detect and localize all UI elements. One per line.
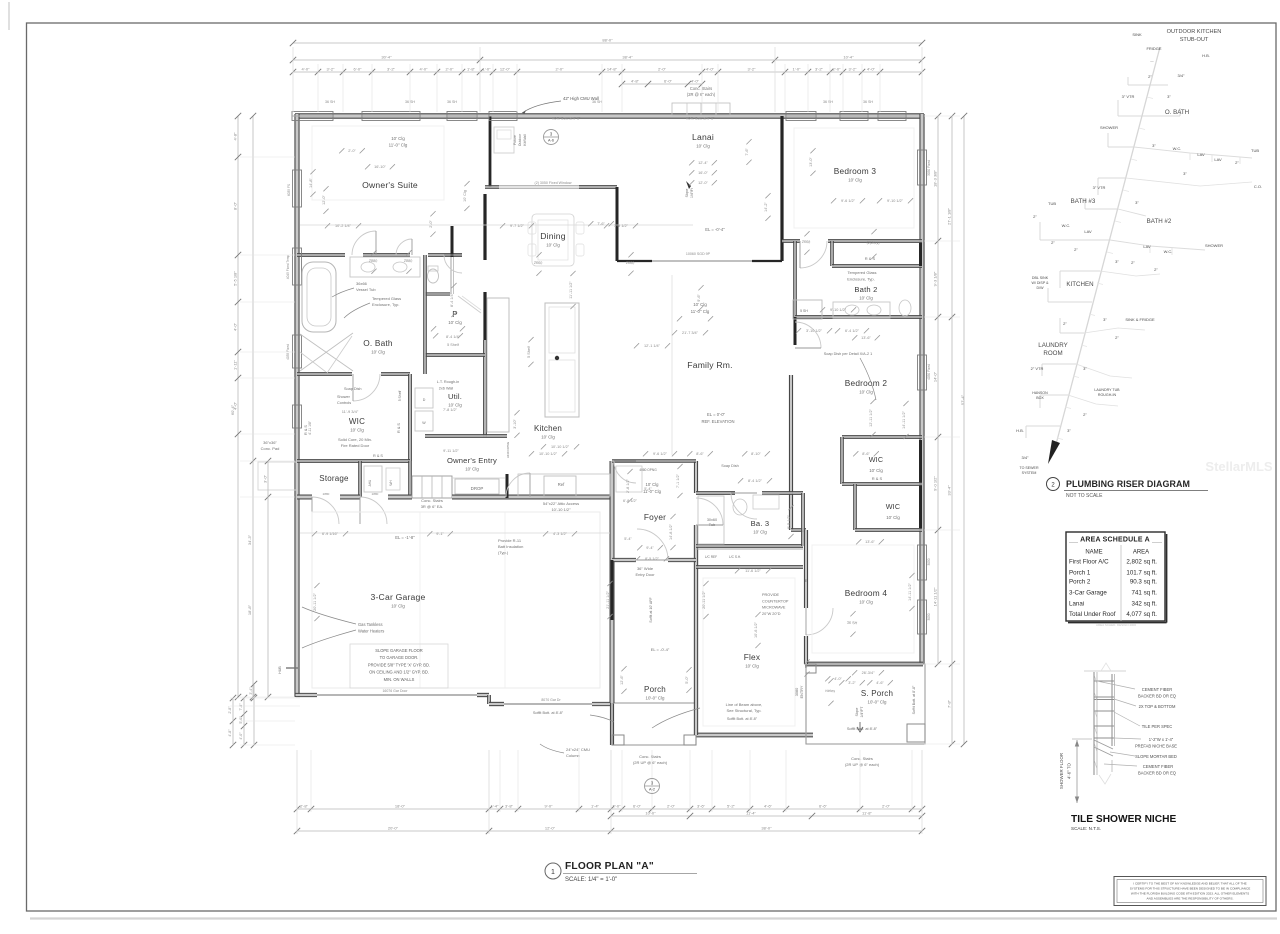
svg-text:Soffit Bott. at 8'-8": Soffit Bott. at 8'-8" [847,727,878,731]
svg-text:10' Clg: 10' Clg [371,350,385,355]
svg-text:9'-7 1/2": 9'-7 1/2" [510,224,525,228]
svg-text:14'-0": 14'-0" [933,371,938,382]
svg-text:Enclosure, Typ.: Enclosure, Typ. [372,302,400,307]
svg-text:Conc. Pad: Conc. Pad [261,446,280,451]
svg-text:1'-0": 1'-0" [483,67,492,72]
exterior walls [295,114,924,117]
svg-text:AREA: AREA [1133,550,1149,556]
svg-text:10' Clg: 10' Clg [541,435,555,440]
svg-text:2X TOP & BOTTOM: 2X TOP & BOTTOM [1139,704,1176,709]
svg-text:3-Car Garage: 3-Car Garage [1069,590,1107,597]
svg-text:4'-0": 4'-0" [302,67,311,72]
svg-text:Total Under Roof: Total Under Roof [1069,611,1116,618]
pantry bottom wall [425,354,485,356]
svg-text:SLOPE MORTAR BED: SLOPE MORTAR BED [1135,754,1177,759]
svg-text:3": 3" [1115,259,1119,264]
svg-text:ROUGH-IN: ROUGH-IN [1098,393,1117,397]
svg-text:SYSTEMS FOR THIS STRUCTURE HAV: SYSTEMS FOR THIS STRUCTURE HAVE BEEN DES… [1130,887,1251,891]
svg-text:10' Clg: 10' Clg [886,515,900,520]
svg-text:Water Heaters: Water Heaters [358,629,384,634]
svg-text:8'-4 1/2": 8'-4 1/2" [748,479,763,483]
svg-text:11'-11 1/2": 11'-11 1/2" [569,281,573,299]
plumbing riser main line [1054,47,1160,452]
svg-text:3'-6": 3'-6" [697,804,706,809]
svg-text:8'-6": 8'-6" [862,452,870,456]
svg-text:741 sq ft.: 741 sq ft. [1132,590,1158,597]
svg-text:33'-4": 33'-4" [947,485,952,496]
svg-text:O. BATH: O. BATH [1165,109,1189,116]
svg-text:7'-8 1/2": 7'-8 1/2" [443,408,458,412]
left extension lines [240,156,295,158]
svg-text:13'-6": 13'-6" [865,540,875,544]
svg-text:21'-7 3/4": 21'-7 3/4" [682,331,699,335]
svg-text:4'-3 1/2": 4'-3 1/2" [553,532,568,536]
svg-text:21'-11 1/2": 21'-11 1/2" [606,590,610,608]
svg-text:2'-8": 2'-8" [228,706,232,714]
svg-text:14'-8 1/2": 14'-8 1/2" [669,523,673,540]
svg-text:36 SH: 36 SH [863,100,873,104]
svg-text:WIC: WIC [886,502,901,511]
svg-text:Slope: Slope [685,189,689,198]
svg-text:9'-1": 9'-1" [436,532,444,536]
svg-text:5 Shelf: 5 Shelf [398,391,402,402]
svg-text:SHOWER: SHOWER [1100,125,1118,130]
svg-text:4'-0": 4'-0" [233,322,238,331]
svg-text:Solid Core, 20 Min.: Solid Core, 20 Min. [338,437,372,442]
svg-text:HDR. Bott. at 9'-8": HDR. Bott. at 9'-8" [552,117,581,121]
svg-text:5 Shelf: 5 Shelf [527,345,531,358]
svg-text:LAV: LAV [1197,152,1205,157]
svg-text:2" VTR: 2" VTR [1031,366,1044,371]
svg-text:60'-4": 60'-4" [230,404,235,415]
svg-text:Soap Dish: Soap Dish [344,387,362,391]
garage stairs landing [412,476,452,498]
svg-text:16'-0": 16'-0" [698,171,708,175]
svg-text:P: P [452,310,458,319]
top extension lines [292,47,294,112]
s.porch outline [806,664,925,744]
svg-text:18'-0": 18'-0" [395,804,406,809]
svg-text:3'-2": 3'-2" [815,67,824,72]
svg-text:AHU: AHU [368,479,372,486]
svg-text:L.T. Rough-in: L.T. Rough-in [437,380,460,384]
svg-text:D/W: D/W [1037,286,1045,290]
svg-text:9'-6": 9'-6" [697,294,701,302]
svg-text:54"x22" Attic Access: 54"x22" Attic Access [543,501,579,506]
svg-text:5'-0": 5'-0" [685,676,689,684]
svg-text:SINK: SINK [1132,32,1142,37]
svg-text:3050: 3050 [927,558,931,565]
svg-text:38'-4": 38'-4" [622,55,633,60]
svg-text:A-2: A-2 [649,788,655,792]
svg-text:(Typ.): (Typ.) [498,550,509,555]
svg-text:BACKER BD OR EQ: BACKER BD OR EQ [1138,771,1176,776]
svg-text:H.B.: H.B. [1202,53,1210,58]
svg-text:AREA SCHEDULE A: AREA SCHEDULE A [1080,537,1150,544]
svg-text:7'-8": 7'-8" [239,703,243,711]
svg-text:2": 2" [1074,247,1078,252]
svg-text:L/C REF: L/C REF [705,555,717,559]
svg-text:2": 2" [1154,267,1158,272]
riser branches [1128,84,1150,86]
doors [352,231,376,255]
svg-text:3'-2": 3'-2" [848,681,856,685]
svg-text:14'-8": 14'-8" [607,67,618,72]
svg-text:KITCHEN: KITCHEN [1066,281,1093,288]
svg-text:NOT TO SCALE: NOT TO SCALE [1066,493,1103,499]
svg-text:11'-0" Clg: 11'-0" Clg [389,143,408,148]
svg-text:2'-0": 2'-0" [658,67,667,72]
svg-text:4'-11 1/8": 4'-11 1/8" [308,420,312,435]
svg-text:36 SH: 36 SH [592,100,602,104]
svg-text:varies: varies [825,689,835,694]
svg-text:SHOWER FLOOR: SHOWER FLOOR [1059,753,1064,789]
svg-text:36 SH: 36 SH [447,100,457,104]
garage ceiling dashes [312,512,600,688]
svg-text:16'-10": 16'-10" [374,165,386,169]
svg-text:4'-6": 4'-6" [764,804,773,809]
svg-text:6'-0": 6'-0" [354,67,363,72]
svg-text:2'-8 1/2": 2'-8 1/2" [626,478,630,493]
svg-text:Soffit at 10' AFF: Soffit at 10' AFF [649,597,653,623]
wc right wall [450,257,452,294]
svg-text:3" VTR: 3" VTR [1093,185,1106,190]
svg-text:5'-4": 5'-4" [624,537,632,541]
svg-text:11'-4": 11'-4" [746,811,756,816]
svg-text:2880: 2880 [369,259,378,263]
svg-text:(2R UP @ 6" each): (2R UP @ 6" each) [845,762,880,767]
svg-text:Soffit Bott. at 8'-8": Soffit Bott. at 8'-8" [912,685,916,714]
svg-text:12'-1 1/4": 12'-1 1/4" [644,344,661,348]
svg-text:10' Clg: 10' Clg [350,428,364,433]
svg-text:Tempered Glass: Tempered Glass [372,296,401,301]
svg-text:CEMENT FIBER: CEMENT FIBER [1143,764,1173,769]
svg-text:1'-4": 1'-4" [591,804,600,809]
svg-text:A-6: A-6 [548,139,554,143]
svg-text:4'-0": 4'-0" [239,732,243,740]
svg-text:4'-6" TO: 4'-6" TO [1067,762,1072,778]
svg-text:5'-4": 5'-4" [644,487,652,491]
svg-text:9'-4": 9'-4" [646,546,654,550]
svg-text:9'-6 1/2": 9'-6 1/2" [841,199,856,203]
svg-text:9'-3 1/8": 9'-3 1/8" [933,271,938,286]
svg-text:14'-11 1/2": 14'-11 1/2" [933,587,938,606]
svg-text:36"x36": 36"x36" [263,440,277,445]
svg-text:L/C S.H.: L/C S.H. [729,555,741,559]
riser arrow to sewer [1048,440,1060,464]
svg-text:342 sq ft.: 342 sq ft. [1132,601,1158,608]
svg-text:SYSTEM: SYSTEM [1022,471,1037,475]
svg-text:2": 2" [1051,240,1055,245]
svg-text:11'-6 1/2": 11'-6 1/2" [745,569,761,573]
storage doors from garage [312,497,339,524]
svg-text:W: W [422,421,426,425]
svg-text:Soffit Bott. at 8'-8": Soffit Bott. at 8'-8" [533,711,564,715]
svg-text:Column: Column [566,753,580,758]
svg-text:D: D [423,398,426,402]
svg-text:12'-6": 12'-6" [620,675,624,685]
svg-text:CEMENT FIBER: CEMENT FIBER [1142,687,1172,692]
svg-text:LAUNDRY TUB: LAUNDRY TUB [1094,388,1120,392]
svg-text:5 SH: 5 SH [800,309,808,313]
svg-text:1: 1 [551,869,555,876]
svg-text:10' Clg: 10' Clg [745,664,759,669]
windows top wall [292,112,333,121]
svg-text:ENTRY: ENTRY [800,685,804,698]
svg-text:Storage: Storage [319,474,349,483]
svg-text:6'-0": 6'-0" [664,79,673,84]
svg-text:EL = -0'-4": EL = -0'-4" [705,227,725,232]
svg-text:(2)2668: (2)2668 [866,241,879,246]
svg-text:2": 2" [1148,74,1152,79]
svg-text:36" Wide: 36" Wide [637,566,654,571]
svg-text:Conc. Stairs: Conc. Stairs [690,86,712,91]
svg-text:BACKER BD OR EQ: BACKER BD OR EQ [1138,694,1176,699]
svg-text:3" VTR: 3" VTR [1122,94,1135,99]
svg-text:Batt Insulation: Batt Insulation [498,544,523,549]
owner bath shower [300,333,353,371]
svg-text:27'-1 1/8": 27'-1 1/8" [947,207,952,224]
svg-text:Shower: Shower [337,395,351,399]
svg-text:PREFAB NICHE BASE: PREFAB NICHE BASE [1135,744,1177,749]
svg-text:Lanai: Lanai [692,132,714,142]
svg-text:2x6 Wall: 2x6 Wall [439,387,454,391]
svg-text:1'-2"W x 1'-4": 1'-2"W x 1'-4" [1149,737,1174,742]
svg-text:10' Clg: 10' Clg [391,604,405,609]
svg-text:14'-8": 14'-8" [309,178,313,188]
svg-text:2880: 2880 [372,492,379,496]
svg-text:10' Clg: 10' Clg [859,600,873,605]
svg-text:Owner's Suite: Owner's Suite [362,180,418,190]
svg-text:1/4"/Ft: 1/4"/Ft [690,188,694,198]
svg-text:AND ASSEMBLIES ARE THE RESPONS: AND ASSEMBLIES ARE THE RESPONSIBILITY OF… [1147,897,1234,901]
svg-text:W/ DISP &: W/ DISP & [1031,281,1049,285]
svg-text:Flex: Flex [744,652,761,662]
svg-text:SLOPE GARAGE FLOOR: SLOPE GARAGE FLOOR [375,648,423,653]
svg-text:PLUMBING RISER DIAGRAM: PLUMBING RISER DIAGRAM [1066,479,1190,489]
svg-text:2'-0": 2'-0" [833,67,842,72]
svg-text:Conc. Stairs: Conc. Stairs [639,754,661,759]
lanai outdoor kitchen [494,127,514,153]
svg-text:R & S: R & S [397,423,401,433]
svg-text:10' Clg: 10' Clg [869,468,883,473]
svg-text:10' Clg: 10' Clg [848,178,862,183]
svg-text:10'-2 1/4": 10'-2 1/4" [335,224,352,228]
svg-text:(2) 3050 Fixed Window: (2) 3050 Fixed Window [535,181,572,185]
svg-text:Bedroom 3: Bedroom 3 [834,166,877,176]
svg-text:101.7 sq ft.: 101.7 sq ft. [1126,570,1157,577]
area schedule table [1066,532,1165,621]
ba3 fixtures [698,496,724,544]
svg-text:Conc. Stairs: Conc. Stairs [851,756,873,761]
svg-text:8'-4 1/4": 8'-4 1/4" [450,292,454,307]
svg-text:10' Clg: 10' Clg [859,390,873,395]
svg-text:10' Clg: 10' Clg [448,320,462,325]
drop zone bench [455,479,499,494]
svg-text:NAME: NAME [1085,550,1102,556]
family rm break line [671,275,673,455]
niche vertical dim [1076,740,1078,803]
svg-text:S. Porch: S. Porch [861,689,893,698]
svg-text:3": 3" [1083,366,1087,371]
svg-text:Porch: Porch [644,685,666,694]
svg-text:ROOM: ROOM [1043,350,1062,357]
wc room wall + toilet [425,293,450,295]
svg-text:12'-0": 12'-0" [545,826,556,831]
svg-text:Bedroom 2: Bedroom 2 [845,378,888,388]
svg-text:HUB: HUB [278,666,282,674]
floor plan title [545,863,561,879]
svg-text:3": 3" [1067,428,1071,433]
svg-text:2'-0": 2'-0" [667,804,676,809]
svg-text:3'-2": 3'-2" [849,67,858,72]
svg-text:COUNTERTOP: COUNTERTOP [762,599,789,603]
niche hatch [1095,676,1098,684]
svg-text:3'-2": 3'-2" [748,67,757,72]
svg-text:8'-0": 8'-0" [233,201,238,210]
svg-text:E: E [805,578,808,583]
svg-text:12'-0": 12'-0" [322,195,326,205]
svg-text:3050 Fixed: 3050 Fixed [927,160,931,176]
svg-text:TILE SHOWER NICHE: TILE SHOWER NICHE [1071,814,1176,825]
svg-text:WIC: WIC [869,455,884,464]
svg-text:Slope: Slope [855,708,859,717]
svg-text:8'-6": 8'-6" [696,452,704,456]
svg-text:1'-11": 1'-11" [233,359,238,369]
svg-text:20'-0": 20'-0" [388,826,399,831]
svg-text:2'-0": 2'-0" [882,804,891,809]
porch outline [612,703,696,745]
svg-text:38'-0": 38'-0" [761,826,772,831]
svg-text:ON CEILING AND 1/2" GYP. BD.: ON CEILING AND 1/2" GYP. BD. [369,670,429,675]
svg-text:5'-0": 5'-0" [239,716,243,724]
svg-text:EL = 0'-0": EL = 0'-0" [707,412,726,417]
svg-text:(2R UP @ 6" each): (2R UP @ 6" each) [633,760,668,765]
svg-text:14'-11 1/2": 14'-11 1/2" [902,410,906,428]
svg-text:2'-0": 2'-0" [446,67,455,72]
svg-text:6035 FS: 6035 FS [287,184,291,196]
owner bath vessel tub [302,262,336,332]
svg-text:10' Clg: 10' Clg [391,136,405,141]
bottom extension lines [296,750,298,812]
svg-text:C.O.: C.O. [1254,184,1262,189]
storage ahu [364,466,382,492]
tray ceilings [312,126,444,200]
svg-text:Outdoor: Outdoor [518,133,522,146]
niche leaders [1097,681,1135,689]
svg-text:3'-0": 3'-0" [263,474,268,483]
svg-text:30x60: 30x60 [707,518,717,522]
svg-text:34'-3": 34'-3" [247,534,252,545]
svg-text:36 SH: 36 SH [823,100,833,104]
svg-text:STUB-OUT: STUB-OUT [1180,37,1209,43]
svg-text:10' Clg: 10' Clg [859,296,873,301]
svg-text:R & S: R & S [872,476,883,481]
svg-text:Tub: Tub [709,523,715,527]
svg-text:90.3 sq ft.: 90.3 sq ft. [1130,579,1157,586]
svg-text:7'-6": 7'-6" [745,148,749,156]
svg-text:LAV: LAV [1143,244,1151,249]
svg-text:4'-6": 4'-6" [876,681,884,685]
svg-text:Porch 1: Porch 1 [1069,570,1091,577]
svg-text:10'-0": 10'-0" [645,811,656,816]
svg-text:(2R @ 6" each): (2R @ 6" each) [687,92,716,97]
svg-text:6'-9 1/16": 6'-9 1/16" [322,532,339,536]
svg-text:Util.: Util. [448,392,462,401]
svg-text:88'-0": 88'-0" [602,38,613,43]
svg-text:Foyer: Foyer [644,512,666,522]
svg-text:10'-0" Clg: 10'-0" Clg [868,700,888,705]
svg-text:HANSON: HANSON [1032,391,1048,395]
svg-text:2": 2" [1063,321,1067,326]
svg-text:4'-0": 4'-0" [691,79,700,84]
copyright box [1114,877,1266,906]
svg-text:2'-0": 2'-0" [556,67,565,72]
svg-text:10'-6 1/2": 10'-6 1/2" [754,621,758,638]
svg-text:3/4": 3/4" [1178,73,1186,78]
svg-text:MICROWAVE: MICROWAVE [762,606,786,610]
svg-text:2": 2" [1235,160,1239,165]
svg-text:2'-0": 2'-0" [429,220,433,228]
svg-text:Family Rm.: Family Rm. [687,360,732,370]
svg-text:2'-8": 2'-8" [300,804,309,809]
pantry corner shelf diagonal [458,296,481,313]
svg-text:10'-4": 10'-4" [843,55,854,60]
svg-text:2668: 2668 [802,240,811,244]
owner bath vanity [350,257,420,277]
svg-text:10'-0" Clg: 10'-0" Clg [646,696,666,701]
svg-text:2,802 sq ft.: 2,802 sq ft. [1126,559,1157,566]
svg-text:LAV: LAV [1084,229,1092,234]
svg-text:Soap Dish: Soap Dish [721,464,739,468]
svg-text:R & S: R & S [373,454,383,458]
svg-text:2660: 2660 [534,261,543,265]
svg-text:3": 3" [1103,317,1107,322]
svg-text:Line of Beam above,: Line of Beam above, [726,702,763,707]
svg-text:Ref: Ref [558,482,565,487]
svg-text:1'-4": 1'-4" [491,804,500,809]
svg-text:Bedroom 4: Bedroom 4 [845,588,888,598]
svg-text:WITH THE FLORIDA BUILDING CODE: WITH THE FLORIDA BUILDING CODE 8TH EDITI… [1131,892,1249,896]
svg-text:EL = -0'-4": EL = -0'-4" [651,647,670,652]
svg-text:SHOWER: SHOWER [1205,243,1223,248]
svg-text:StellarMLS: StellarMLS [1205,459,1273,474]
svg-text:8'-10": 8'-10" [751,452,761,456]
svg-text:4'-8": 4'-8" [228,729,232,737]
svg-text:Future: Future [513,135,517,145]
svg-text:Vessel Tub: Vessel Tub [356,287,376,292]
svg-text:Provide R-11: Provide R-11 [498,538,522,543]
svg-text:Bath 2: Bath 2 [854,285,877,294]
svg-text:12'-4": 12'-4" [698,161,708,165]
top dimension rows [293,42,922,44]
svg-text:FLOOR PLAN "A": FLOOR PLAN "A" [565,861,654,872]
svg-text:36 SH: 36 SH [847,621,858,626]
svg-text:12'-0": 12'-0" [698,181,708,185]
svg-text:8'-5 1/2": 8'-5 1/2" [645,557,660,561]
svg-text:10' Clg: 10' Clg [546,243,560,248]
svg-text:2": 2" [1131,260,1135,265]
svg-text:See Structural, Typ.: See Structural, Typ. [726,708,761,713]
svg-text:AREA SCHED. DESIGN 4000: AREA SCHED. DESIGN 4000 [1096,623,1136,627]
svg-text:3'-10 1/2": 3'-10 1/2" [806,329,823,333]
garage note box [350,644,448,688]
svg-text:Owner's Entry: Owner's Entry [447,456,497,465]
bath2 fixtures [793,300,822,319]
niche studs [1093,672,1095,775]
svg-text:3'-4": 3'-4" [249,687,253,695]
svg-text:O. Bath: O. Bath [363,338,393,348]
